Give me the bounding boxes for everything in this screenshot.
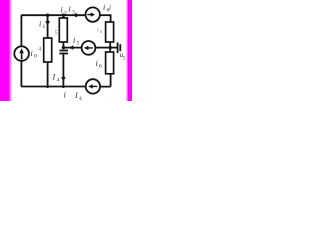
capacitor C1 plate top [59, 50, 68, 52]
wire: right vertical top (corner to R1) [110, 14, 112, 22]
svg-text:i: i [64, 91, 66, 100]
svg-text:i: i [103, 3, 105, 12]
svg-text:i: i [69, 5, 71, 14]
node N1 dot (middle junction) [62, 46, 65, 49]
node dot on top wire at branch 4 [46, 14, 49, 17]
resistor R4 (left middle box) [44, 38, 52, 62]
wire: left vertical top (corner to source J1) [20, 15, 22, 46]
wire: middle horizontal (node N1 to source J2) [63, 47, 81, 49]
resistor R6 (bottom right box) [106, 52, 114, 74]
svg-text:I: I [74, 91, 78, 100]
svg-text:0: 0 [34, 54, 37, 60]
capacitor C1 plate bottom [59, 53, 68, 55]
wire: branch 5 bottom (C1 to bottom wire) [62, 54, 64, 87]
current source J1 (left circle) [14, 46, 29, 61]
wire: branch 5 top (node to R5) [62, 15, 64, 18]
background [0, 0, 132, 101]
wire: branch 4 bottom (R4 to bottom wire) [47, 62, 49, 87]
node dot bottom wire at branch 5 [62, 85, 65, 88]
wire: node N2 to capacitor C2 [110, 47, 117, 49]
wire: branch 4 top (node to R4) [47, 15, 49, 38]
right magenta scan border [128, 0, 132, 101]
svg-text:5: 5 [55, 30, 58, 37]
node dot on top wire at branch 5 [62, 14, 65, 17]
node N2 dot (right junction) [109, 46, 112, 49]
current arrow i3 (right, on top wire) [75, 13, 80, 18]
left magenta scan border [0, 0, 10, 101]
wire: left vertical bottom (source J1 to corner) [20, 61, 22, 87]
svg-text:5: 5 [77, 41, 80, 47]
arrow inside source J1 (up) [19, 48, 24, 59]
arrow inside source J2 (left) [84, 46, 93, 50]
wire: right vertical below R6 to bottom corner [100, 74, 111, 87]
current source J2 (middle circle) [82, 41, 96, 55]
svg-text:2: 2 [64, 11, 67, 17]
wire: branch 5 (R5 to node N1) [62, 42, 64, 48]
current arrow i1 (down, branch 4 top) [45, 16, 50, 26]
resistor R5 (middle box) [59, 18, 67, 42]
current arrow i5 (left, on middle wire) [69, 45, 74, 49]
current source J3 (bottom circle) [86, 79, 100, 93]
capacitor C2 plate left [117, 42, 119, 53]
wire: top horizontal right segment [100, 14, 111, 16]
arrow inside source J4 (right) [87, 12, 95, 16]
wire: top horizontal left segment [21, 14, 86, 16]
wire: middle horizontal (source J2 to node N2) [95, 47, 110, 49]
svg-text:4: 4 [57, 78, 60, 84]
node dot bottom wire at branch 4 [46, 85, 49, 88]
current arrow (down, branch 5 bottom) [61, 74, 66, 82]
svg-text:I: I [52, 73, 56, 82]
wire: bottom horizontal (left of source J3) [21, 86, 86, 88]
svg-text:3: 3 [72, 10, 75, 16]
svg-text:i: i [39, 20, 41, 29]
svg-text:i: i [31, 49, 33, 58]
svg-text:6: 6 [99, 64, 102, 70]
svg-text:4: 4 [79, 96, 82, 101]
svg-text:i: i [61, 6, 63, 15]
wire: right vertical between R1 and node N2 [109, 42, 111, 52]
svg-text:1: 1 [43, 24, 46, 30]
current source J4 (top circle) [86, 7, 100, 21]
svg-text:i: i [96, 59, 98, 68]
arrow inside source J3 (left) [88, 84, 97, 88]
resistor R1 (top right box) [106, 22, 114, 42]
capacitor C2 plate right [119, 44, 121, 51]
svg-text:i: i [73, 36, 75, 45]
svg-text:i: i [109, 4, 111, 12]
